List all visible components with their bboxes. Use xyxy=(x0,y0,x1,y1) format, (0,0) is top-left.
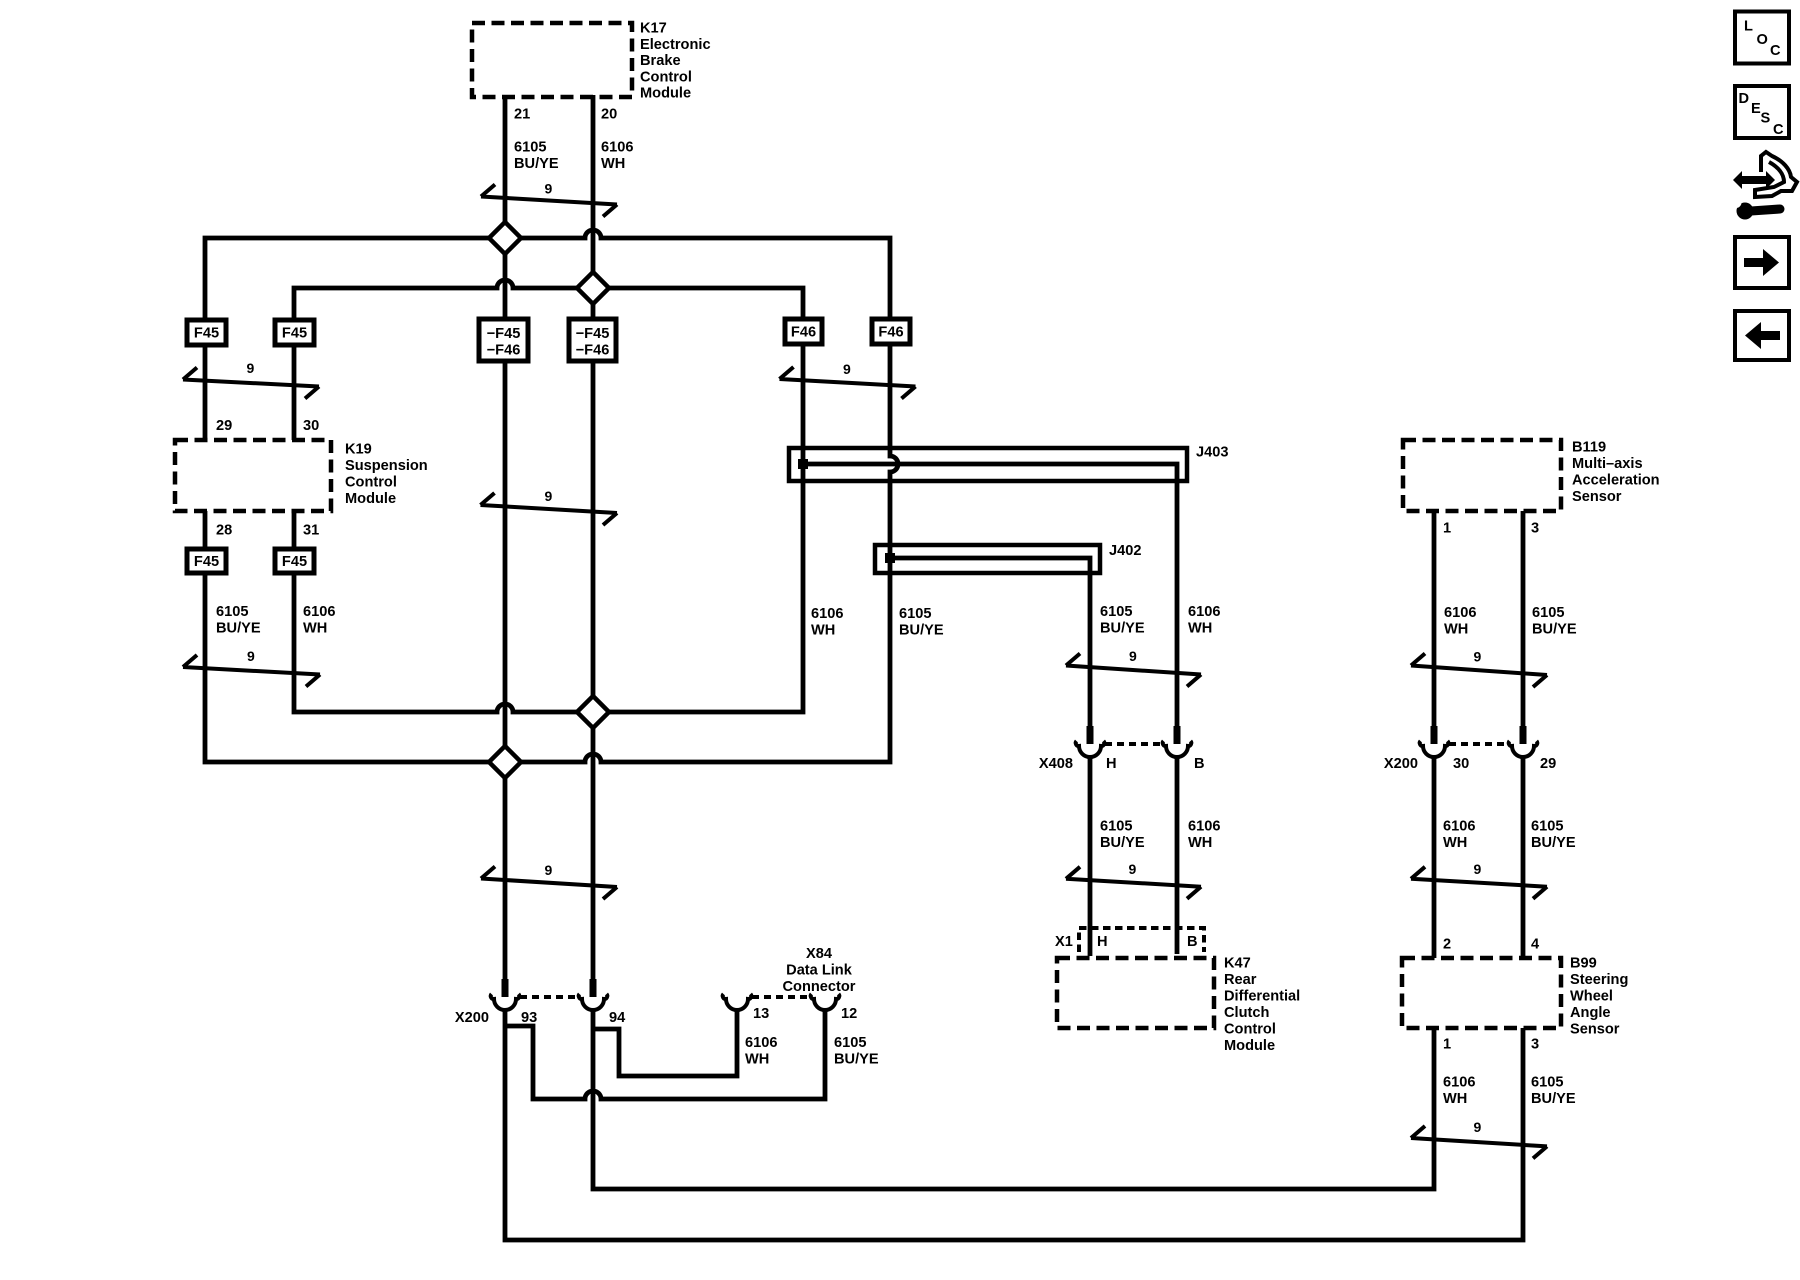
fuse F46 box col x803 xyxy=(785,319,822,344)
wire bus 6106 upper: F45 mid / K17-20 / F46 left, hop over 6105 at x505 xyxy=(294,280,803,320)
svg-text:3: 3 xyxy=(1531,1037,1539,1053)
svg-text:WH: WH xyxy=(1188,621,1212,637)
wire count slash above K19 xyxy=(183,368,319,399)
svg-text:WH: WH xyxy=(811,623,835,639)
wire F45 to K19 pin 30 xyxy=(292,345,297,440)
wire F46 right down through J403 into J402 splice xyxy=(890,344,898,575)
connector X200 right terminal pin 29 xyxy=(1509,726,1538,757)
svg-text:X1: X1 xyxy=(1055,934,1073,950)
svg-text:H: H xyxy=(1106,756,1117,772)
wire label 6106 WH left column xyxy=(303,604,335,637)
svg-text:Angle: Angle xyxy=(1570,1005,1611,1021)
svg-text:Module: Module xyxy=(1224,1038,1275,1054)
connector X1 dashed half box on K47 xyxy=(1079,928,1204,952)
svg-text:6105: 6105 xyxy=(1100,819,1132,835)
svg-text:Control: Control xyxy=(345,475,397,491)
svg-text:6105: 6105 xyxy=(1531,819,1563,835)
svg-text:B99: B99 xyxy=(1570,956,1597,972)
module K19 label xyxy=(345,442,428,508)
svg-text:Control: Control xyxy=(1224,1022,1276,1038)
svg-text:C: C xyxy=(1770,43,1781,59)
svg-text:−F45: −F45 xyxy=(576,326,610,342)
svg-text:9: 9 xyxy=(247,648,255,664)
svg-text:31: 31 xyxy=(303,523,319,539)
wire F46 left down into J403 splice xyxy=(801,344,806,466)
svg-text:BU/YE: BU/YE xyxy=(1531,1091,1576,1107)
svg-text:Data Link: Data Link xyxy=(786,963,853,979)
svg-text:Control: Control xyxy=(640,69,692,85)
svg-text:F45: F45 xyxy=(194,554,219,570)
svg-text:WH: WH xyxy=(1444,622,1468,638)
wire label 6106 WH col x1434 xyxy=(1444,605,1476,638)
wire count slash below B119 xyxy=(1411,654,1547,688)
svg-text:J402: J402 xyxy=(1109,543,1141,559)
svg-text:F45: F45 xyxy=(282,554,307,570)
svg-text:B: B xyxy=(1194,756,1205,772)
junction dot J402 at wire 890 xyxy=(885,553,895,563)
wire label 6106 WH DLC pin13 xyxy=(745,1035,777,1068)
wire J403 splice line to X408 pin B, hop over x890 xyxy=(803,464,1177,729)
svg-text:9: 9 xyxy=(1129,861,1137,877)
svg-text:9: 9 xyxy=(843,361,851,377)
svg-text:K19: K19 xyxy=(345,442,372,458)
svg-text:93: 93 xyxy=(521,1010,537,1026)
wire bus 6105 upper: F45 left / K17-21 / F46 right, hop over 6106 at x593 xyxy=(205,230,890,320)
svg-text:29: 29 xyxy=(216,418,232,434)
wire count slash below X200 right xyxy=(1411,867,1547,899)
legend hotlink icon hook arrow xyxy=(1755,152,1797,197)
svg-text:13: 13 xyxy=(753,1006,769,1022)
wire 6105 BU/YE from K17 pin 21 down to X200 pin 93 xyxy=(503,95,508,979)
wire label 6105 BU/YE under K17 xyxy=(514,140,559,173)
svg-text:9: 9 xyxy=(1474,1119,1482,1135)
wire count slash below X408 xyxy=(1066,867,1201,899)
wire label 6106 WH below X408 xyxy=(1188,819,1220,852)
svg-text:Connector: Connector xyxy=(783,979,856,995)
wire label 6105 BU/YE col x890 xyxy=(899,606,944,639)
wire bus 6106 lower: K19-31 to F46/J403 column, hop over x505 xyxy=(294,462,803,712)
svg-text:L: L xyxy=(1744,19,1753,35)
wire label 6105 BU/YE col x1523 xyxy=(1532,605,1577,638)
wire X408 H to K47 X1 H xyxy=(1088,756,1093,956)
svg-text:6105: 6105 xyxy=(216,604,248,620)
module K47 Rear Differential Clutch Control Module dashed box xyxy=(1057,958,1214,1028)
svg-text:BU/YE: BU/YE xyxy=(1532,622,1577,638)
svg-text:WH: WH xyxy=(1443,835,1467,851)
svg-text:BU/YE: BU/YE xyxy=(1100,621,1145,637)
connector X84 dashed line xyxy=(752,995,810,999)
svg-text:C: C xyxy=(1773,122,1784,138)
wire branch X200-94 to DLC pin 13 xyxy=(593,1009,737,1076)
wire label 6106 WH below X200 right xyxy=(1443,819,1475,852)
svg-text:2: 2 xyxy=(1443,937,1451,953)
sensor B99 label xyxy=(1570,956,1628,1038)
connector X84 terminal pin 12 xyxy=(811,994,840,1010)
wire count slash below K17 xyxy=(481,185,617,217)
svg-text:6106: 6106 xyxy=(745,1035,777,1051)
svg-text:6105: 6105 xyxy=(1531,1075,1563,1091)
wire K19 pin 28 to F45 xyxy=(203,511,208,549)
svg-text:WH: WH xyxy=(1188,835,1212,851)
fuse -F45-F46 box col x505 xyxy=(479,319,528,361)
fuse F45 box left col2 xyxy=(275,320,314,345)
svg-text:K17: K17 xyxy=(640,21,667,37)
svg-text:F45: F45 xyxy=(282,326,307,342)
junction diamond bus 6106 at x593 xyxy=(577,272,609,304)
svg-text:B119: B119 xyxy=(1572,440,1606,456)
svg-text:30: 30 xyxy=(1453,756,1469,772)
svg-text:Clutch: Clutch xyxy=(1224,1005,1269,1021)
svg-text:Electronic: Electronic xyxy=(640,37,711,53)
wire J402 splice line to X408 pin H xyxy=(890,558,1090,729)
svg-text:B: B xyxy=(1187,934,1198,950)
wire F45 to K19 pin 29 xyxy=(203,345,208,440)
svg-text:29: 29 xyxy=(1540,756,1556,772)
svg-text:E: E xyxy=(1751,101,1761,117)
junction diamond bus 6105 lower at x505 xyxy=(489,746,521,778)
svg-text:3: 3 xyxy=(1531,521,1539,537)
svg-text:X200: X200 xyxy=(1384,756,1418,772)
legend hotlink icon wrench xyxy=(1731,197,1781,220)
svg-text:9: 9 xyxy=(247,360,255,376)
svg-text:6106: 6106 xyxy=(1443,1075,1475,1091)
junction diamond bus 6105 at x505 xyxy=(489,222,521,254)
splice pack J403 box xyxy=(789,448,1187,481)
svg-text:9: 9 xyxy=(545,862,553,878)
svg-text:Sensor: Sensor xyxy=(1570,1022,1620,1038)
svg-text:F45: F45 xyxy=(194,326,219,342)
svg-text:X408: X408 xyxy=(1039,756,1073,772)
fuse F45 box lower col2 xyxy=(275,549,314,573)
svg-text:21: 21 xyxy=(514,107,530,123)
wire label 6106 WH under K17 xyxy=(601,140,633,173)
wire count slash above X200 left xyxy=(481,867,617,900)
svg-text:D: D xyxy=(1739,91,1750,107)
connector X200 right terminal pin 30 xyxy=(1420,726,1449,757)
svg-text:6106: 6106 xyxy=(1188,819,1220,835)
wire count slash above X408 xyxy=(1066,654,1201,687)
svg-text:BU/YE: BU/YE xyxy=(899,623,944,639)
svg-text:−F46: −F46 xyxy=(576,343,610,359)
wire label 6105 BU/YE below X408 xyxy=(1100,819,1145,852)
connector X200 left dashed line xyxy=(520,995,578,999)
legend LOC box xyxy=(1735,12,1789,64)
wire B119 pin 3 to X200 pin 29 xyxy=(1521,511,1526,730)
svg-text:Brake: Brake xyxy=(640,53,681,69)
svg-text:20: 20 xyxy=(601,107,617,123)
fuse -F45-F46 box col x593 xyxy=(569,319,616,361)
connector X84 Data Link Connector label xyxy=(783,946,856,995)
svg-text:Acceleration: Acceleration xyxy=(1572,473,1660,489)
wire label 6105 BU/YE left column xyxy=(216,604,261,637)
svg-text:9: 9 xyxy=(545,181,553,197)
svg-text:Steering: Steering xyxy=(1570,972,1628,988)
fuse F46 box col x890 xyxy=(872,319,910,344)
module K47 label xyxy=(1224,956,1300,1055)
wire bus 6105 lower: K19-28 to F46/J402 column, hop over x593 xyxy=(205,573,890,762)
svg-text:Sensor: Sensor xyxy=(1572,489,1622,505)
svg-text:1: 1 xyxy=(1443,521,1451,537)
svg-text:1: 1 xyxy=(1443,1037,1451,1053)
svg-text:28: 28 xyxy=(216,523,232,539)
svg-text:Module: Module xyxy=(640,86,691,102)
svg-text:12: 12 xyxy=(841,1006,857,1022)
svg-text:BU/YE: BU/YE xyxy=(514,156,559,172)
wire X200-29 to B99 pin 4 xyxy=(1521,756,1526,958)
module K17 Electronic Brake Control Module dashed box xyxy=(472,23,632,97)
wire label 6106 WH col x803 xyxy=(811,606,843,639)
svg-text:K47: K47 xyxy=(1224,956,1251,972)
svg-text:J403: J403 xyxy=(1196,445,1228,461)
svg-text:S: S xyxy=(1761,111,1771,127)
legend DESC box xyxy=(1735,86,1789,138)
svg-text:6106: 6106 xyxy=(601,140,633,156)
svg-text:6105: 6105 xyxy=(899,606,931,622)
connector X408 terminal pin B xyxy=(1163,726,1192,757)
connector X408 terminal pin H xyxy=(1076,726,1105,757)
sensor B99 Steering Wheel Angle Sensor dashed box xyxy=(1402,958,1561,1028)
svg-text:4: 4 xyxy=(1531,937,1540,953)
wire count slash below F46 pair xyxy=(780,367,916,399)
wire label 6105 BU/YE below X200 right xyxy=(1531,819,1576,852)
wire label 6105 BU/YE col x1090 xyxy=(1100,604,1145,637)
splice pack J402 box xyxy=(875,545,1100,573)
svg-text:O: O xyxy=(1757,32,1768,48)
svg-text:−F46: −F46 xyxy=(487,343,521,359)
connector X84 terminal pin 13 xyxy=(723,994,752,1010)
svg-text:Multi–axis: Multi–axis xyxy=(1572,456,1643,472)
wire count slash below -F45-F46 pair xyxy=(481,493,618,525)
svg-text:6105: 6105 xyxy=(1532,605,1564,621)
junction diamond bus 6106 lower at x593 xyxy=(577,696,609,728)
svg-text:H: H xyxy=(1097,934,1108,950)
svg-text:9: 9 xyxy=(1129,648,1137,664)
wire 6106 WH from K17 pin 20 down to X200 pin 94 xyxy=(591,95,596,979)
wire X408 B to K47 X1 B xyxy=(1175,756,1180,954)
wire label 6106 WH below B99 xyxy=(1443,1075,1475,1108)
svg-text:BU/YE: BU/YE xyxy=(1531,835,1576,851)
svg-text:Differential: Differential xyxy=(1224,989,1300,1005)
svg-text:94: 94 xyxy=(609,1010,626,1026)
svg-text:WH: WH xyxy=(1443,1091,1467,1107)
wire K19 pin 31 to F45 xyxy=(292,511,297,549)
svg-text:9: 9 xyxy=(1474,861,1482,877)
svg-text:F46: F46 xyxy=(791,325,816,341)
svg-text:6106: 6106 xyxy=(1444,605,1476,621)
svg-text:6105: 6105 xyxy=(514,140,546,156)
wire B119 pin 1 to X200 pin 30 xyxy=(1432,511,1437,730)
sensor B119 label xyxy=(1572,440,1660,506)
legend hotlink icon double arrow xyxy=(1733,171,1775,189)
wire count slash below B99 xyxy=(1411,1126,1547,1158)
svg-text:6106: 6106 xyxy=(1443,819,1475,835)
svg-text:Rear: Rear xyxy=(1224,972,1257,988)
svg-text:X84: X84 xyxy=(806,946,833,962)
connector X200 left terminal pin 94 xyxy=(579,979,608,1010)
svg-text:Suspension: Suspension xyxy=(345,458,428,474)
junction dot J403 at wire 803 xyxy=(798,459,808,469)
svg-text:6106: 6106 xyxy=(811,606,843,622)
connector X408 dashed line xyxy=(1105,742,1163,746)
wire label 6105 BU/YE DLC pin12 xyxy=(834,1035,879,1068)
svg-text:WH: WH xyxy=(601,156,625,172)
wire label 6106 WH col x1177 xyxy=(1188,604,1220,637)
wire B99 pin 1 6106 WH long run to X200 pin 94 xyxy=(593,1009,1434,1189)
wire branch X200-93 to DLC pin 12, hop over x593 xyxy=(505,1009,825,1099)
svg-text:Module: Module xyxy=(345,491,396,507)
svg-text:BU/YE: BU/YE xyxy=(834,1052,879,1068)
svg-text:X200: X200 xyxy=(455,1010,489,1026)
svg-text:BU/YE: BU/YE xyxy=(216,621,261,637)
wire count slash below lower F45 pair xyxy=(183,655,320,687)
fuse F45 box lower col1 xyxy=(187,549,226,573)
svg-text:WH: WH xyxy=(745,1052,769,1068)
svg-text:BU/YE: BU/YE xyxy=(1100,835,1145,851)
wire label 6105 BU/YE below B99 xyxy=(1531,1075,1576,1108)
svg-text:30: 30 xyxy=(303,418,319,434)
fuse F45 box left col1 xyxy=(187,320,226,345)
legend back arrow box xyxy=(1735,311,1789,360)
svg-text:Wheel: Wheel xyxy=(1570,989,1613,1005)
sensor B119 Multi-axis Acceleration Sensor dashed box xyxy=(1403,440,1561,511)
wire B99 pin 3 6105 BU/YE long run to X200 pin 93 xyxy=(505,1009,1523,1240)
svg-text:F46: F46 xyxy=(878,325,903,341)
connector X200 right dashed line xyxy=(1449,742,1507,746)
svg-text:9: 9 xyxy=(545,488,553,504)
svg-text:WH: WH xyxy=(303,621,327,637)
svg-text:6106: 6106 xyxy=(1188,604,1220,620)
svg-text:6105: 6105 xyxy=(834,1035,866,1051)
svg-text:6105: 6105 xyxy=(1100,604,1132,620)
module K19 Suspension Control Module dashed box xyxy=(175,440,331,511)
legend forward arrow box xyxy=(1735,237,1789,288)
module K17 label xyxy=(640,21,711,102)
svg-text:−F45: −F45 xyxy=(487,326,521,342)
svg-text:9: 9 xyxy=(1474,649,1482,665)
connector X200 left terminal pin 93 xyxy=(491,979,520,1010)
wire X200-30 to B99 pin 2 xyxy=(1432,756,1437,958)
svg-text:6106: 6106 xyxy=(303,604,335,620)
